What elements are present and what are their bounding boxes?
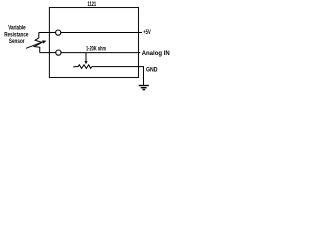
- svg-text:+5V: +5V: [143, 29, 151, 36]
- interface board box 1121: [49, 8, 138, 78]
- svg-text:1121: 1121: [88, 1, 97, 8]
- terminal circle bottom: [56, 50, 61, 55]
- svg-text:Sensor: Sensor: [9, 38, 25, 45]
- wire +5V net: [39, 32, 142, 34]
- svg-text:Analog IN: Analog IN: [142, 51, 170, 57]
- wire GND net: [92, 67, 144, 86]
- sensor arrow: [26, 42, 43, 49]
- svg-text:GND: GND: [146, 68, 158, 74]
- trimpot resistor zigzag: [73, 65, 92, 69]
- wire Analog IN net: [40, 52, 141, 54]
- variable resistance sensor zigzag: [34, 33, 42, 53]
- svg-text:1-20K ohm: 1-20K ohm: [86, 45, 106, 52]
- terminal circle top: [56, 30, 61, 35]
- ground symbol: [139, 85, 149, 87]
- trimpot wiper arrow: [85, 53, 87, 62]
